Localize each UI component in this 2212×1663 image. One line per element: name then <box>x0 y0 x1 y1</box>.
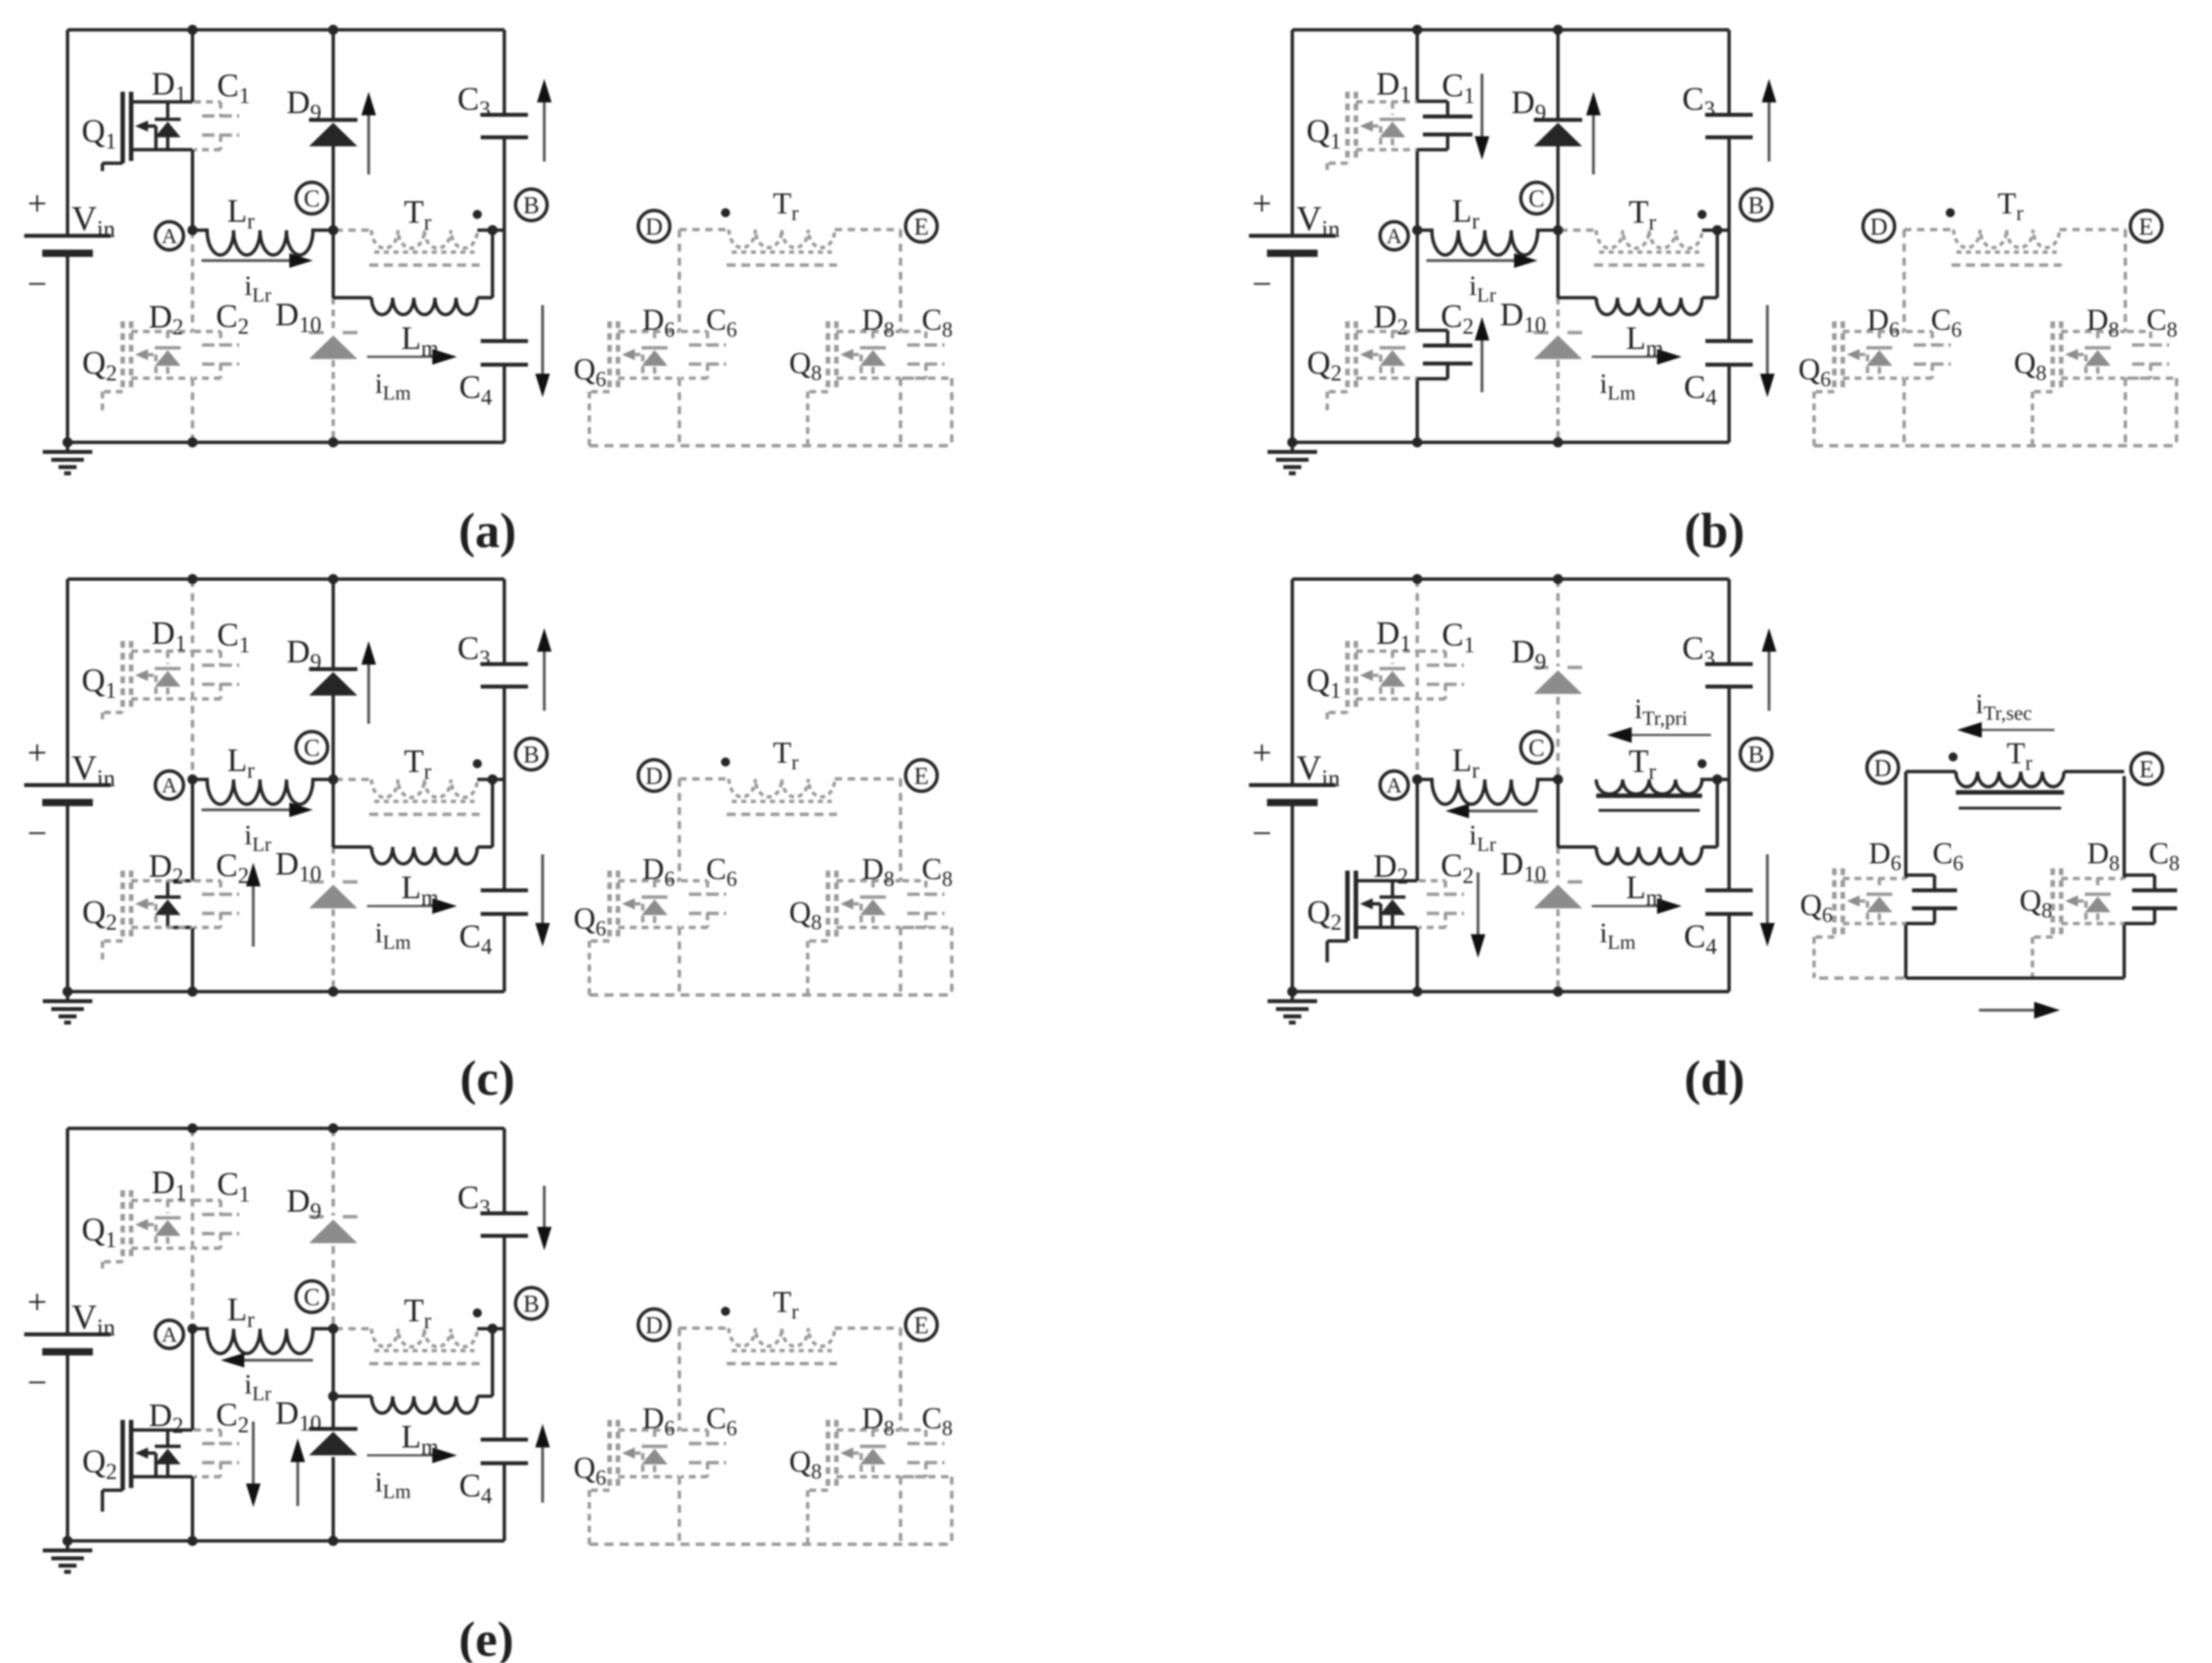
svg-text:E: E <box>2139 756 2154 783</box>
svg-text:+: + <box>28 185 47 223</box>
svg-text:−: − <box>1252 265 1272 303</box>
svg-text:E: E <box>914 214 929 240</box>
svg-text:C: C <box>304 735 320 761</box>
svg-text:A: A <box>162 225 177 248</box>
svg-text:C: C <box>304 186 320 212</box>
svg-text:E: E <box>914 763 929 790</box>
svg-text:(d): (d) <box>1684 1051 1745 1106</box>
svg-text:A: A <box>162 1323 177 1347</box>
svg-text:C: C <box>1529 186 1545 212</box>
svg-text:A: A <box>1386 225 1402 248</box>
svg-text:D: D <box>645 763 662 790</box>
svg-text:(c): (c) <box>460 1051 515 1106</box>
svg-text:+: + <box>28 1283 47 1321</box>
svg-text:B: B <box>523 192 540 219</box>
svg-text:+: + <box>1252 734 1272 772</box>
svg-text:D: D <box>645 214 662 240</box>
svg-text:B: B <box>1748 742 1765 768</box>
svg-text:C: C <box>304 1284 320 1311</box>
svg-text:D: D <box>1874 755 1891 782</box>
svg-text:−: − <box>28 1364 47 1402</box>
svg-text:−: − <box>1252 814 1272 853</box>
svg-text:−: − <box>28 265 47 303</box>
svg-text:B: B <box>523 1291 540 1317</box>
svg-text:B: B <box>523 742 540 768</box>
svg-text:A: A <box>1386 774 1402 797</box>
svg-text:B: B <box>1748 192 1765 219</box>
svg-text:E: E <box>2139 214 2153 240</box>
svg-text:E: E <box>914 1312 929 1339</box>
svg-text:−: − <box>28 814 47 853</box>
svg-text:C: C <box>1529 735 1545 761</box>
svg-text:(e): (e) <box>459 1612 514 1663</box>
svg-text:(b): (b) <box>1684 504 1745 558</box>
svg-text:+: + <box>1252 185 1272 223</box>
svg-text:(a): (a) <box>459 504 517 558</box>
svg-text:+: + <box>28 734 47 772</box>
svg-text:D: D <box>645 1312 662 1339</box>
svg-text:A: A <box>162 774 177 797</box>
svg-text:D: D <box>1870 214 1887 240</box>
